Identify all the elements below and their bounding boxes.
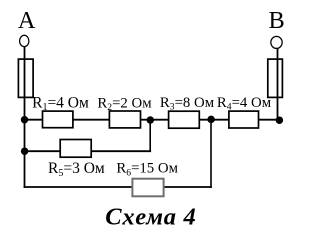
wire: left vertical (main rail down to bottom rail) <box>24 120 26 187</box>
wire: A branch vertical (circle to main rail) <box>24 47 26 120</box>
resistor R3 <box>169 111 200 128</box>
node: right junction on main rail (below B) <box>276 116 284 124</box>
svg-text:R4=4 Ом: R4=4 Ом <box>217 95 272 113</box>
resistor R4 <box>229 111 259 128</box>
wire: riser from R5 rail up to node between R2 and R3 <box>149 120 151 151</box>
svg-text:R6=15 Ом: R6=15 Ом <box>116 161 178 179</box>
wire: R5 middle rail <box>25 150 151 152</box>
resistor R5 <box>60 140 91 158</box>
terminal A circle <box>20 35 29 46</box>
svg-text:R2=2 Ом: R2=2 Ом <box>97 95 152 113</box>
node: junction between R3 and R4 <box>207 116 215 124</box>
svg-text:A: A <box>18 7 36 34</box>
svg-text:B: B <box>269 7 285 34</box>
resistor R6 (gray outline) <box>132 179 163 197</box>
resistor R1 <box>43 111 73 128</box>
node: junction between R2 and R3 <box>147 116 155 124</box>
wire: riser from bottom rail up to node between R3 and R4 <box>210 120 212 188</box>
wire: bottom rail <box>25 186 212 188</box>
svg-text:R3=8 Ом: R3=8 Ом <box>160 95 215 113</box>
wire: main horizontal rail <box>25 119 280 121</box>
resistor R2 <box>109 111 140 128</box>
terminal B circle <box>271 36 282 48</box>
wire: B branch vertical (circle to main rail) <box>277 49 279 120</box>
svg-text:R1=4 Ом: R1=4 Ом <box>32 95 89 114</box>
resistor in B branch (unlabeled, wire passes through) <box>268 59 283 97</box>
node: R5 tap on left vertical wire <box>21 147 29 155</box>
resistor in A branch (unlabeled, wire passes through) <box>18 59 33 97</box>
svg-text:Схема 4: Схема 4 <box>105 203 196 230</box>
svg-text:R5=3 Ом: R5=3 Ом <box>48 160 105 179</box>
node: left junction on main rail <box>21 116 29 124</box>
